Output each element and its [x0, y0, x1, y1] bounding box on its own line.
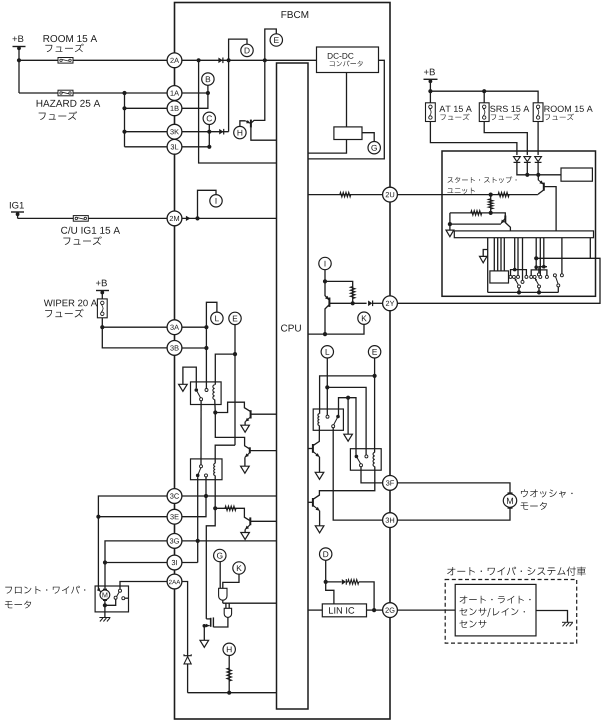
resistor LIN — [348, 580, 359, 585]
MOSFET Q4 channel bar — [210, 618, 212, 627]
wire 3H to washer motor — [398, 507, 510, 520]
ground (MOSFET) — [200, 640, 209, 647]
transistor Q-H emitter arrow — [245, 120, 250, 123]
contact c2f — [538, 285, 541, 288]
wire AT fuse to diode1 — [430, 122, 517, 156]
wire diode2 stub — [526, 162, 528, 174]
wire branch 1A to 3L rows — [124, 93, 126, 147]
LIN IC label — [329, 607, 354, 614]
wire hook to D — [229, 39, 247, 60]
wire RLY1 coil down — [215, 400, 250, 449]
wire E-node down to Q-H collector — [251, 60, 265, 123]
wire Q7 emitter stub — [537, 175, 539, 180]
connector 1A — [167, 86, 182, 101]
wire IG1 fuse row to 2M — [18, 217, 168, 219]
relay coil box (DC-DC) — [334, 127, 362, 140]
node E (washer) — [368, 346, 380, 358]
node H-resistor bottom — [227, 691, 231, 695]
resistor R2 (unit) — [488, 199, 493, 209]
transistor Q7 emitter arrow — [538, 180, 543, 184]
node L — [211, 312, 223, 324]
wire bus to coil box 2 — [497, 238, 499, 271]
LIN IC box — [322, 604, 366, 617]
bracket2 — [531, 270, 547, 276]
wire HAZARD fuse row to 1A — [19, 92, 167, 94]
transistor Q1 emitter arrow — [245, 417, 250, 422]
start-stop unit box — [442, 151, 596, 296]
node R2 bottom — [489, 211, 493, 215]
wire Q1 base to CPU — [251, 413, 277, 415]
wire Q5 emitter to ground — [319, 457, 321, 472]
transistor Q8 emitter arrow — [501, 218, 505, 223]
node under IG1 — [16, 212, 20, 216]
node coil-Q2 branch — [213, 506, 217, 510]
wire +B down to ROOM row — [18, 47, 20, 94]
wire ROOM fuse row to 2A — [19, 59, 167, 61]
node 2A inside — [197, 58, 201, 62]
contact c1a — [509, 275, 512, 278]
wire 2A row inside — [182, 59, 317, 61]
node B — [202, 73, 214, 85]
wire bus to bracket2b — [543, 238, 545, 267]
node resistor-base — [351, 301, 355, 305]
contact c1b — [512, 275, 515, 278]
ground (unit mid) — [480, 256, 487, 262]
wire 3A inside — [182, 326, 207, 328]
wire motor switch — [105, 599, 116, 605]
resistor 2U line — [340, 192, 351, 197]
wire diode3 stub — [537, 162, 539, 174]
+B terminal (unit) — [424, 78, 438, 80]
node 3E left junction — [96, 515, 100, 519]
start-stop output box — [561, 168, 592, 181]
wire CPU K line — [308, 324, 364, 334]
sensor label line3 — [459, 620, 486, 628]
node ROOM row — [17, 58, 21, 62]
ground (Q5) — [315, 472, 324, 479]
transistor Q7 bar — [543, 183, 545, 191]
fuse WIPER 20A — [97, 299, 107, 318]
wire B to 1A/1B — [182, 85, 208, 108]
wire 1A inside — [182, 92, 208, 94]
node under +B unit — [429, 79, 433, 83]
wire E branch to RLY1 coil — [215, 354, 235, 385]
wire Q7 collector — [539, 190, 544, 195]
ground (unit left) — [446, 230, 454, 237]
sensor label line1 — [460, 596, 531, 604]
connector 2Y — [383, 296, 398, 311]
ground (washer relays) — [344, 434, 353, 441]
wire to 1B — [125, 107, 168, 109]
node common feed ground branch — [346, 396, 350, 400]
wire gate1 output — [222, 600, 224, 603]
node D (LIN) — [320, 548, 332, 560]
relay RLY1 output contact — [200, 398, 203, 401]
wire bus to coil box 4 — [503, 238, 505, 271]
transistor Q3 emitter arrow — [245, 453, 250, 458]
wire bus to c1c — [517, 238, 519, 276]
wire RLY2 common to 3I row — [197, 477, 199, 562]
transistor Q-H bar — [250, 120, 252, 128]
relay RLY1 common contact — [195, 388, 199, 392]
contact c2d — [545, 275, 548, 278]
wire bus to SRS fuse — [483, 91, 485, 103]
gate U1 — [219, 588, 227, 600]
contact c3c — [557, 284, 560, 287]
node MOSFET source — [203, 624, 207, 628]
diode D3 (unit) — [535, 157, 542, 163]
contact c2a — [530, 275, 533, 278]
wire LIN IC to 2G — [367, 609, 383, 611]
relay RLY2 blade — [198, 468, 201, 476]
wire 2M row to CPU — [182, 217, 277, 219]
SRS 15 A label — [490, 106, 529, 112]
node after 2A diode — [227, 58, 231, 62]
resistor R3 (unit) — [471, 211, 482, 216]
wire H to resistor — [228, 656, 230, 693]
relay RLY4 output contact — [360, 464, 363, 467]
wire RLY4 coil to Q6 — [313, 467, 375, 500]
node G (gate) — [214, 549, 226, 561]
wire to 3L — [125, 146, 168, 148]
chassis ground (wiper motor) — [99, 618, 110, 622]
node E branch — [263, 58, 267, 62]
node 3A row — [100, 325, 104, 329]
wire gate2 output to MOSFET gate — [213, 617, 228, 627]
wire bus to c1e — [522, 238, 524, 281]
connector 3L — [167, 139, 182, 154]
bus bar (unit) — [454, 231, 593, 238]
relay RLY2 box — [191, 459, 223, 480]
wire to 3K — [125, 131, 168, 133]
connector 3G — [167, 534, 182, 549]
wire hook to L — [206, 302, 217, 327]
relay RLY3 blade — [334, 417, 338, 425]
wire Q6 base from CPU — [308, 501, 313, 503]
contact c1f — [518, 285, 521, 288]
node collector-K line — [323, 332, 327, 336]
transistor Q5 emitter arrow — [313, 452, 319, 457]
node 3C junction — [204, 494, 208, 498]
wire +B to wiper fuse — [101, 291, 103, 299]
wire diode-resistor to 2G node — [347, 581, 349, 583]
wire c1f to bottom bus — [518, 288, 520, 293]
wire Q6 emitter to ground — [319, 511, 321, 526]
connector 3B — [167, 341, 182, 356]
diode LIN — [342, 579, 347, 585]
wire CPU to 2U — [308, 194, 382, 196]
wire Q-2Y collector down — [325, 305, 329, 334]
resistor Q2 collector — [225, 506, 236, 511]
wire motor switch to 2AA — [120, 582, 167, 590]
wire gate1 to CPU — [223, 602, 277, 604]
+B terminal (wiper) — [96, 290, 109, 292]
node 2M inside — [195, 216, 199, 220]
node bracket2b — [542, 265, 546, 269]
node coil-Q1 branch — [213, 410, 217, 414]
connector 3E — [167, 509, 182, 524]
connector 3F — [383, 476, 398, 491]
wire 2A node down to CPU — [199, 60, 277, 163]
node K — [358, 312, 370, 324]
diode D2 (unit) — [524, 157, 531, 163]
transistor Q1 bar — [250, 410, 252, 418]
MOSFET Q4 source arrow — [204, 624, 209, 628]
wire resistor to 2G line — [359, 582, 374, 610]
fuse SRS 15A — [479, 103, 489, 122]
ground (Q6) — [315, 526, 324, 533]
wire E down to RLY4 coil — [374, 358, 376, 452]
wire c2f to bottom bus — [538, 288, 540, 293]
node D — [241, 44, 253, 56]
ground (Q1) — [241, 425, 250, 432]
zener diode — [184, 654, 191, 664]
switch blade 2 — [535, 278, 539, 285]
WIPER 20 A label — [44, 300, 97, 307]
diode to 2Y — [368, 301, 373, 307]
transistor Q2 emitter arrow — [245, 525, 250, 530]
relay RLY2 coil — [214, 463, 216, 475]
wire bus to c3b — [561, 238, 563, 274]
wire sensor to ground — [536, 611, 568, 623]
motor M (washer) — [503, 493, 516, 508]
arrow into motor — [97, 588, 101, 592]
start-stop unit label line1 — [448, 176, 517, 183]
relay RLY1 blade — [196, 390, 200, 398]
fuse label (SRS) — [491, 114, 520, 121]
HAZARD 25 A label — [37, 100, 101, 107]
fuse ROOM 15A (unit) — [533, 103, 543, 122]
sensor label line2 — [459, 608, 525, 617]
node 3B junction — [204, 346, 208, 350]
node I — [210, 195, 222, 207]
wire bus to c2c — [539, 238, 541, 276]
transistor Q-2Y bar — [328, 298, 330, 307]
wire coil box to G — [362, 133, 374, 142]
diode on 3K line — [219, 129, 224, 135]
fuse HAZARD 25A — [58, 90, 73, 96]
contact c2c — [539, 275, 542, 278]
wire D branch to diode — [326, 581, 342, 583]
DC-DC converter jp label — [330, 60, 363, 66]
wire +B unit stub — [429, 79, 431, 103]
relay RLY3 input contact — [326, 415, 329, 418]
wire E down (upper) — [234, 325, 236, 446]
wire DC-DC bottom to coil box — [346, 73, 348, 127]
ground (Q2) — [241, 533, 250, 540]
connector 3K — [167, 124, 182, 139]
gate2 input stub 1 — [225, 603, 227, 608]
node L branch — [325, 385, 329, 389]
front wiper motor box — [95, 586, 128, 612]
MOSFET Q4 drain stub — [206, 618, 210, 620]
node 3A junction — [204, 325, 208, 329]
relay RLY4 common contact — [355, 455, 359, 459]
fuse AT 15A — [426, 103, 436, 122]
node diode3 rail — [536, 173, 540, 177]
+B label (wiper) — [96, 280, 107, 287]
fuse ROOM 15A — [58, 58, 73, 64]
wire bus right drop — [589, 238, 591, 259]
wire G to gate1 — [219, 562, 221, 589]
connector 3A — [167, 320, 182, 335]
ground (RLY1 common) — [179, 384, 188, 391]
gate2 input stub 2 — [228, 603, 230, 608]
C/U IG1 15 A label — [61, 226, 120, 233]
node R2 top — [489, 193, 493, 197]
wire Q5 base from CPU — [308, 448, 313, 450]
connector 3I — [167, 555, 182, 570]
wire coil branch to Q1 collector — [215, 402, 250, 412]
connector 3H — [383, 513, 398, 528]
wire L down to RLY3 — [326, 358, 328, 415]
relay RLY3 coil — [318, 414, 319, 426]
relay RLY3 common contact — [336, 415, 340, 419]
connector 3C — [167, 489, 182, 504]
fuse label (AT) — [440, 114, 469, 121]
fuse label (ROOM unit) — [545, 114, 574, 121]
gate U2 — [224, 608, 231, 617]
wire RLY1 output down to RLY2 — [200, 401, 202, 465]
wire R2 link — [490, 195, 492, 213]
contact c3b — [560, 274, 563, 277]
wire hook to E — [265, 29, 277, 60]
washer motor label line2 — [521, 502, 547, 510]
transistor Q-2Y emitter arrow — [325, 296, 329, 300]
node K (gate) — [233, 562, 245, 574]
contact c1e — [521, 280, 524, 283]
node D-diode branch — [324, 580, 328, 584]
wire Q1 emitter to ground — [244, 422, 246, 426]
wire Q2 emitter to ground — [244, 530, 246, 533]
wire R3 row — [450, 213, 505, 223]
node 3I left junction — [103, 560, 107, 564]
wire RLY3/RLY4 common feed — [339, 398, 357, 455]
FBCM module box — [175, 3, 391, 720]
wire Q7 base to bus — [544, 187, 556, 231]
wire Q8 collector to bus — [505, 223, 510, 231]
wire diode1 to rail — [517, 162, 561, 174]
wire Q3 emitter to ground — [244, 457, 246, 466]
relay RLY4 box — [350, 449, 381, 471]
wire SRS fuse to diode2 — [484, 122, 527, 156]
ROOM 15 A label — [44, 35, 98, 42]
wire MOSFET source to ground — [203, 626, 205, 641]
wire D down — [326, 560, 334, 604]
wire 3E left — [98, 516, 167, 518]
wire L branch to RLY4 contact — [327, 387, 366, 455]
wire resistor branch — [325, 281, 353, 303]
wire RLY1 common to ground — [183, 367, 196, 388]
node E — [270, 34, 282, 46]
transistor Q8 bar — [504, 216, 506, 223]
IG1 terminal — [11, 211, 24, 213]
resistor 2Y pullup — [350, 287, 355, 299]
fuse label (HAZARD) — [39, 111, 77, 120]
wire bus to coil box 1 — [493, 238, 495, 271]
node under +B wiper — [100, 291, 104, 295]
wire 3B inside — [182, 347, 207, 349]
fuse label (ROOM) — [45, 43, 83, 52]
wire bus to bracket1 — [514, 238, 516, 270]
wire 2G external — [398, 609, 456, 611]
node 1A row — [122, 91, 126, 95]
DC-DC converter box — [317, 47, 379, 73]
ground (Q3) — [241, 466, 250, 473]
resistor R1 (unit) — [498, 192, 509, 197]
node E (wiper relay) — [229, 312, 241, 324]
node H — [234, 126, 246, 138]
relay RLY1 NO contact — [205, 389, 208, 392]
resistor H line — [227, 668, 232, 681]
wire to 3A — [102, 326, 167, 328]
wire to ground (washer relays) — [347, 398, 349, 435]
node 3G junction — [196, 539, 200, 543]
connector 2U — [383, 187, 398, 202]
node H (bottom) — [223, 643, 235, 655]
relay RLY4 input contact — [365, 455, 368, 458]
wire bus ground drop — [487, 238, 489, 293]
wire bus to coil box 3 — [500, 238, 502, 271]
node 2Y-unit — [534, 256, 538, 260]
node 3K row — [122, 130, 126, 134]
node I (2Y group) — [319, 257, 331, 269]
wire 3C to CPU — [182, 495, 277, 497]
front wiper motor label line2 — [5, 601, 31, 609]
wire 3F to washer motor — [398, 483, 510, 494]
bracket1 — [511, 270, 527, 276]
fuse C/U IG1 15A — [73, 216, 88, 222]
front wiper motor label line1 — [5, 586, 85, 594]
node B-1A — [206, 91, 210, 95]
wire RLY3 output to 3H — [333, 428, 382, 520]
signal arrow 2M — [186, 216, 191, 221]
node bracket1 — [513, 268, 517, 272]
wire DC-DC right loop — [308, 60, 384, 159]
wire Q2 base to CPU — [250, 520, 276, 522]
relay RLY2 NO contact — [205, 474, 208, 477]
relay RLY4 blade — [356, 456, 360, 463]
relay RLY3 output contact — [332, 425, 335, 428]
node LIN-2G — [372, 608, 376, 612]
diode on 2A line — [218, 58, 223, 64]
relay RLY2 common contact — [196, 474, 200, 478]
node G — [368, 142, 380, 154]
connector 2AA — [167, 574, 182, 589]
wire ROOM fuse to diode3 — [537, 122, 539, 156]
wire +B bus — [430, 91, 538, 103]
fuse label (WIPER) — [45, 309, 83, 318]
AT 15 A label — [439, 106, 471, 112]
node bottom bus 2 — [537, 290, 541, 294]
motor switch contact 3 — [122, 597, 125, 600]
+B terminal (top-left) — [13, 46, 26, 48]
wire wiper fuse to 3A/3B — [102, 318, 167, 348]
MOSFET Q4 gate bar — [212, 617, 214, 627]
wire 3K inside — [182, 131, 229, 133]
sensor box — [455, 584, 536, 636]
contact c3a — [553, 274, 556, 277]
+B label (top-left) — [12, 35, 23, 42]
wire hook to I — [198, 190, 217, 218]
wire bus to bracket2 — [535, 238, 537, 270]
DC-DC label — [328, 53, 354, 59]
wire I down to Q-2Y — [325, 270, 329, 300]
node emitter row left — [448, 222, 452, 226]
auto wiper dashed box — [445, 580, 577, 644]
wire RLY3 coil to Q5 — [313, 426, 319, 446]
node diode2 rail — [525, 173, 529, 177]
